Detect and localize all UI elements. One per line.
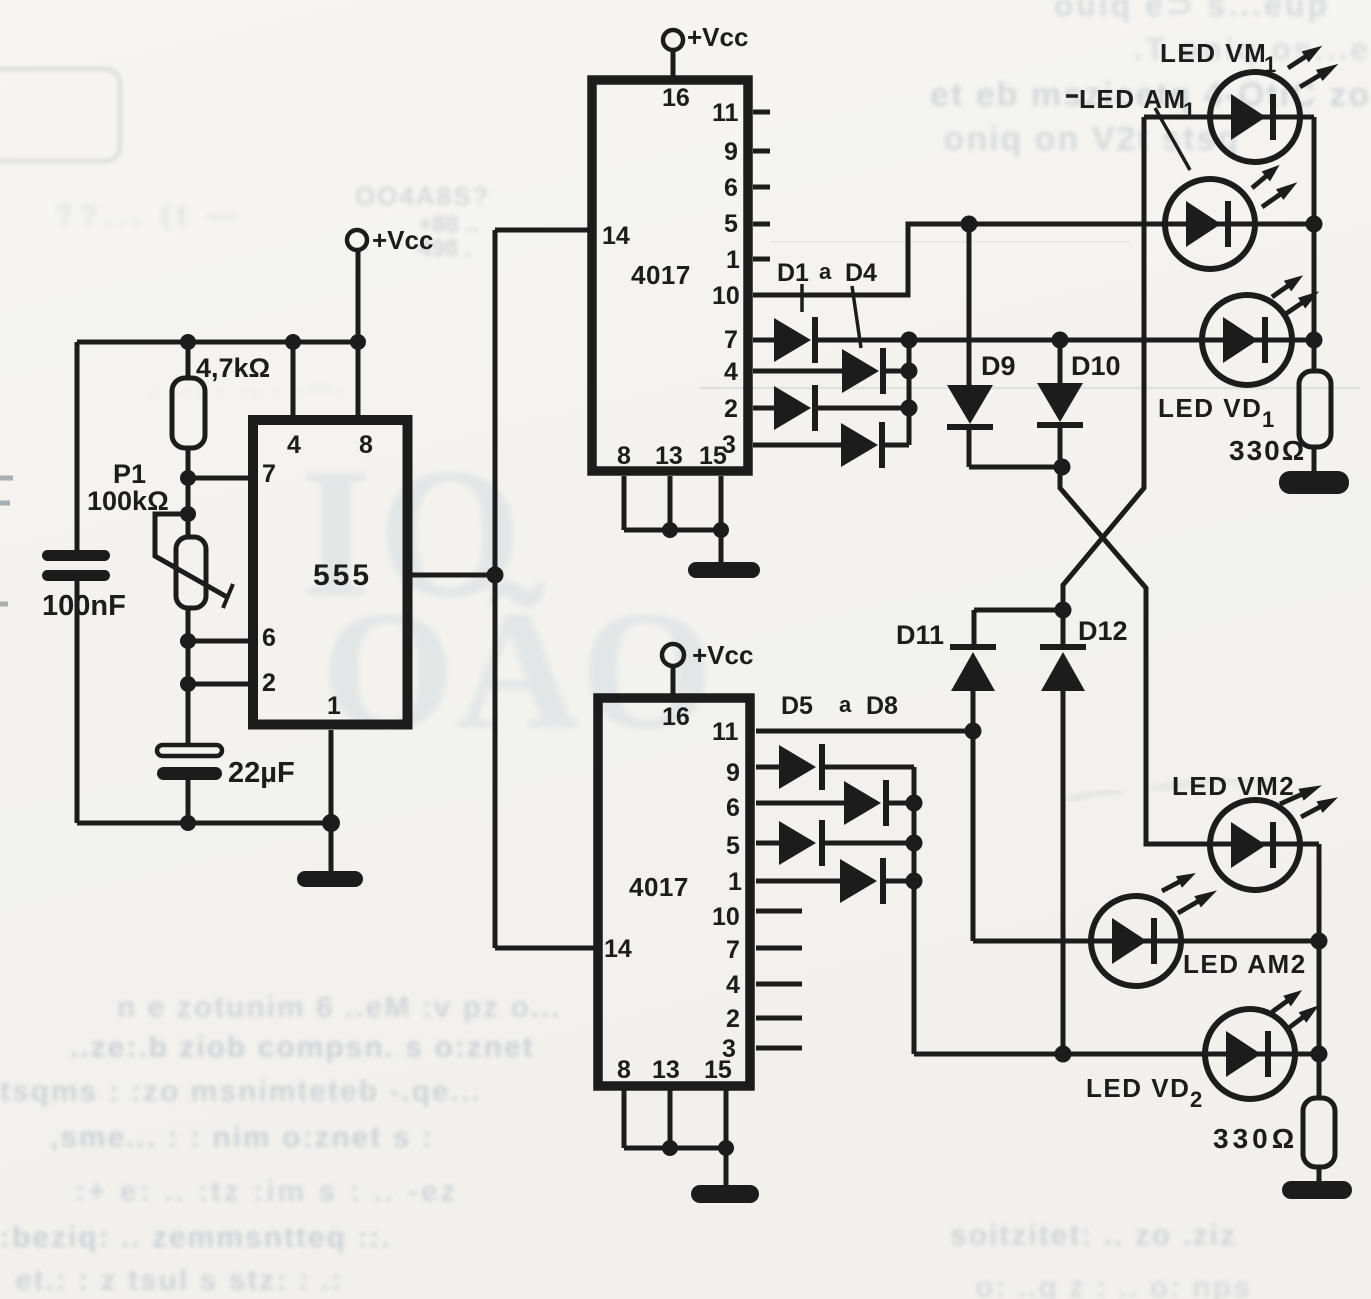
svg-text:4: 4 xyxy=(724,358,738,386)
svg-text:1: 1 xyxy=(1264,52,1278,77)
svg-text:D1: D1 xyxy=(777,259,809,287)
svg-text:4,7kΩ: 4,7kΩ xyxy=(196,353,270,383)
svg-text:1: 1 xyxy=(728,868,742,896)
svg-text:D10: D10 xyxy=(1071,351,1121,381)
svg-text:2: 2 xyxy=(726,1005,740,1033)
svg-text:5: 5 xyxy=(724,210,738,238)
svg-text:o: ..q z : .. o: nps: o: ..q z : .. o: nps xyxy=(975,1271,1252,1299)
svg-text:16: 16 xyxy=(662,84,690,112)
svg-text:4: 4 xyxy=(726,971,740,999)
svg-text:11: 11 xyxy=(712,99,739,127)
svg-text:D9: D9 xyxy=(981,351,1016,381)
svg-text:LED AM: LED AM xyxy=(1079,84,1187,114)
svg-text:1: 1 xyxy=(726,246,740,274)
svg-text:11: 11 xyxy=(712,718,739,746)
svg-text:6: 6 xyxy=(726,794,740,822)
svg-text:4017: 4017 xyxy=(629,872,689,902)
svg-text:D5: D5 xyxy=(781,692,813,720)
svg-text:D8: D8 xyxy=(866,692,898,720)
svg-text:tsqms : :zo msnimteteb -.qe.: tsqms : :zo msnimteteb -.qe... xyxy=(0,1075,482,1108)
svg-text:1: 1 xyxy=(327,692,341,720)
svg-text:10: 10 xyxy=(712,903,740,931)
svg-text:100nF: 100nF xyxy=(42,590,126,622)
svg-text:14: 14 xyxy=(602,222,630,250)
svg-text:LED VD: LED VD xyxy=(1086,1073,1190,1103)
svg-text:9: 9 xyxy=(724,138,738,166)
svg-text::beziq: .. zemmsntteq ::.: :beziq: .. zemmsntteq ::. xyxy=(0,1221,392,1254)
svg-text:D4: D4 xyxy=(845,259,877,287)
svg-text:7: 7 xyxy=(724,326,738,354)
svg-text:6: 6 xyxy=(262,624,276,652)
svg-text:1: 1 xyxy=(1262,407,1276,432)
svg-text:a: a xyxy=(819,259,832,284)
svg-text:22µF: 22µF xyxy=(228,757,295,789)
svg-text:8: 8 xyxy=(617,1056,631,1084)
svg-text:et.: : z tsul s stz: :: et.: : z tsul s stz: : .: xyxy=(15,1264,343,1297)
svg-text:..ze:.b ziob compsn. s o:z: ..ze:.b ziob compsn. s o:znet xyxy=(70,1031,535,1064)
svg-text:2: 2 xyxy=(262,669,276,697)
svg-text:100kΩ: 100kΩ xyxy=(87,486,169,516)
svg-text:ouiq e⊃ s...eup: ouiq e⊃ s...eup xyxy=(1054,0,1330,23)
svg-text:330Ω: 330Ω xyxy=(1213,1123,1298,1154)
svg-text:9: 9 xyxy=(726,759,740,787)
svg-text:OO4A8S?: OO4A8S? xyxy=(355,181,490,211)
svg-text:LED VM: LED VM xyxy=(1160,38,1267,68)
svg-text:a: a xyxy=(839,692,852,717)
svg-text::+ e: .. :tz :im s : ..: :+ e: .. :tz :im s : .. -ez xyxy=(75,1175,459,1208)
svg-text:10: 10 xyxy=(712,282,740,310)
svg-text:P1: P1 xyxy=(113,459,146,489)
svg-text:+Vcc: +Vcc xyxy=(692,640,753,670)
svg-text:+Vcc: +Vcc xyxy=(687,22,748,52)
svg-text:1: 1 xyxy=(1183,98,1197,123)
svg-text:7: 7 xyxy=(262,460,276,488)
svg-text:,sme... : : nim o:znet s: ,sme... : : nim o:znet s : xyxy=(50,1121,434,1154)
svg-text:LED VM2: LED VM2 xyxy=(1172,771,1295,801)
svg-text:OÃO: OÃO xyxy=(322,576,715,764)
svg-text:8: 8 xyxy=(359,431,373,459)
svg-text:D12: D12 xyxy=(1078,616,1128,646)
svg-text:??... (t —: ??... (t — xyxy=(55,199,243,232)
svg-text:+Vcc: +Vcc xyxy=(372,225,433,255)
svg-text:4017: 4017 xyxy=(631,260,691,290)
svg-text:D11: D11 xyxy=(896,620,944,650)
svg-text:330Ω: 330Ω xyxy=(1229,435,1306,466)
svg-text:LED AM2: LED AM2 xyxy=(1183,949,1307,979)
svg-text:5: 5 xyxy=(726,832,740,860)
svg-text:15: 15 xyxy=(704,1056,732,1084)
svg-text:13: 13 xyxy=(655,442,683,470)
svg-text:15: 15 xyxy=(699,442,727,470)
svg-text:LED VD: LED VD xyxy=(1158,393,1262,423)
svg-text:oniq on V2t stsq: oniq on V2t stsq xyxy=(944,120,1240,158)
svg-text:2: 2 xyxy=(724,395,738,423)
svg-text:2: 2 xyxy=(1190,1087,1204,1112)
svg-text:8: 8 xyxy=(617,442,631,470)
svg-text:13: 13 xyxy=(652,1056,680,1084)
svg-text:555: 555 xyxy=(313,559,372,592)
svg-text:soitzitet: .. zo .ziz: soitzitet: .. zo .ziz xyxy=(950,1219,1237,1252)
svg-text:16: 16 xyxy=(662,703,690,731)
svg-text:7: 7 xyxy=(726,936,740,964)
svg-text:6: 6 xyxy=(724,174,738,202)
svg-text:14: 14 xyxy=(604,935,632,963)
svg-text:n e zotunim 6 ..eM :v pz o.: n e zotunim 6 ..eM :v pz o... xyxy=(117,991,562,1024)
svg-text:4: 4 xyxy=(287,431,301,459)
